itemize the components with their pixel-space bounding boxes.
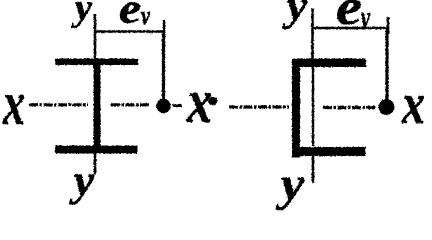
dimension right tick (left figure): [163, 20, 166, 38]
dimension drop line to shear centre (left figure): [162, 31, 165, 101]
x-axis dash-dot segment A (left figure): [29, 103, 88, 106]
x-axis dash-dot segment A (right figure): [229, 105, 289, 108]
channel bottom flange (right figure): [292, 147, 366, 156]
dimension line e_v (left figure): [95, 30, 165, 32]
y-axis bottom tail (left figure): [94, 154, 97, 175]
x-axis dash-dot segment B (left figure): [111, 103, 150, 106]
svg-text:x: x: [2, 70, 25, 138]
y-axis top segment (right figure): [311, 9, 314, 60]
y-axis top segment (left figure): [94, 14, 97, 59]
web (left I-section): [94, 65, 101, 146]
bottom flange (left I-section): [55, 146, 138, 154]
svg-text:v: v: [141, 1, 150, 30]
shear centre dot (left figure): [156, 99, 171, 114]
svg-text:y: y: [71, 0, 92, 29]
channel top flange (right figure): [292, 59, 366, 68]
svg-text:v: v: [361, 0, 371, 37]
x-axis dash segment C right of dot (left figure): [173, 104, 183, 107]
y-axis bottom tail (right figure): [312, 156, 315, 183]
serif flourish blob of middle x label: [208, 97, 217, 105]
dimension line e_v (right figure): [313, 27, 389, 29]
shear centre dot (right figure): [379, 99, 395, 115]
x-axis dash-dot segment B (right figure): [323, 106, 376, 109]
svg-text:e: e: [119, 0, 141, 33]
dimension right tick (right figure): [387, 17, 390, 34]
dimension drop line to shear centre (right figure): [385, 28, 388, 100]
svg-text:x: x: [401, 71, 425, 136]
channel web (right figure): [292, 59, 300, 158]
y-axis inner segment (right figure): [312, 67, 314, 146]
svg-text:e: e: [336, 0, 362, 36]
top flange (left I-section): [55, 59, 138, 66]
